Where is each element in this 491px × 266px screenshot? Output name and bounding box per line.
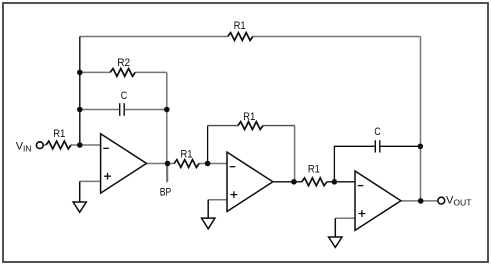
svg-text:R1: R1 (234, 20, 246, 32)
svg-text:BP: BP (160, 186, 172, 198)
svg-text:C: C (121, 90, 128, 102)
svg-text:C: C (374, 126, 381, 138)
svg-text:R1: R1 (243, 111, 255, 123)
svg-text:VIN: VIN (16, 141, 32, 154)
svg-text:R1: R1 (308, 163, 320, 175)
svg-text:R1: R1 (53, 128, 65, 140)
svg-text:VOUT: VOUT (446, 195, 472, 208)
svg-text:R2: R2 (117, 57, 130, 69)
svg-text:R1: R1 (181, 149, 193, 161)
